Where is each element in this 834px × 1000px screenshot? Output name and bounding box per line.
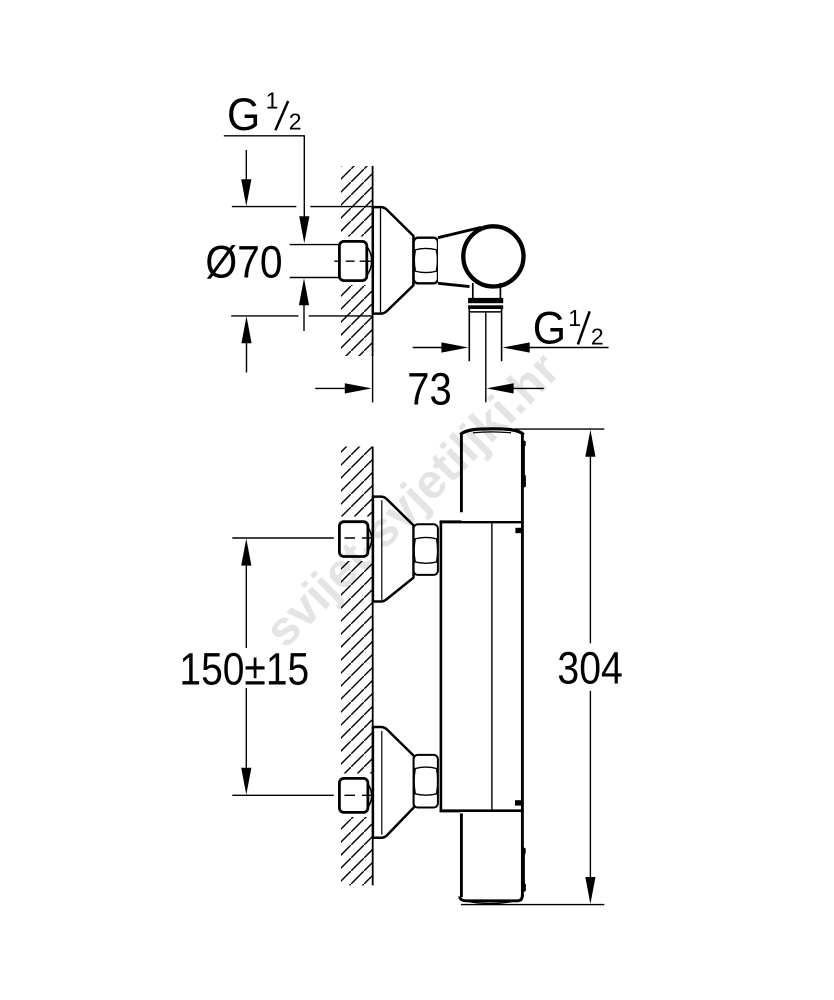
outlet pipe xyxy=(468,309,470,361)
150 dimension line with arrows xyxy=(241,539,251,566)
upper inlet nut centerline xyxy=(345,537,372,539)
svg-text:304: 304 xyxy=(557,642,622,693)
inlet nut centerline (top view) xyxy=(334,260,371,262)
lower inlet nut centerline xyxy=(345,794,372,796)
hatch clearance around inlet nut (top view) xyxy=(336,237,373,286)
inlet nut in wall (top view) xyxy=(367,246,372,276)
svg-text:2: 2 xyxy=(591,323,604,349)
G1/2 leader underline xyxy=(224,135,305,137)
hatch clearance lower inlet nut xyxy=(334,774,372,818)
right edge (knob and body) xyxy=(521,434,524,897)
extension line bottom of rosette (O70 lower) xyxy=(231,315,372,317)
outlet pipe centerline xyxy=(485,312,487,402)
knob lever (bottom knob) xyxy=(523,851,525,886)
set screw dot lower xyxy=(515,800,522,805)
extension line top of rosette (O70 upper) xyxy=(232,206,373,208)
lower escutcheon flange line xyxy=(381,731,383,835)
lower inlet extension line xyxy=(232,794,333,796)
upper escutcheon flange line xyxy=(381,500,383,600)
hatch clearance upper inlet nut xyxy=(334,517,372,562)
wall face line (top view) xyxy=(372,166,374,356)
svg-text:G: G xyxy=(227,89,260,140)
body left edge xyxy=(440,521,443,812)
thermostat knob (top) xyxy=(461,428,522,521)
shower outlet stub xyxy=(472,283,474,298)
flow knob (bottom) xyxy=(460,812,524,902)
set screw dot upper xyxy=(515,528,521,533)
body top edge xyxy=(440,520,524,523)
escutcheon flange inner line (top view) xyxy=(380,208,382,313)
body bottom edge xyxy=(440,809,524,812)
G1/2 outlet dimension arrows xyxy=(413,347,443,349)
G1/2 thread lower extension line xyxy=(290,277,340,279)
escutcheon rosette (top view) xyxy=(373,207,414,314)
svg-text:1: 1 xyxy=(266,88,279,114)
lower inlet nut in wall xyxy=(368,783,372,808)
upper union nut (front view) xyxy=(414,524,438,575)
wall hatch (front view) xyxy=(341,447,373,886)
73 dimension arrows xyxy=(315,387,346,389)
upper escutcheon rosette (front view) xyxy=(373,497,414,602)
O70 dimension arrow lower xyxy=(246,342,248,373)
outlet collar xyxy=(468,298,503,303)
svg-text:1: 1 xyxy=(568,305,581,331)
O70 dimension arrow upper xyxy=(245,150,247,182)
knob safety button (top knob) xyxy=(523,443,525,478)
G1/2 thread upper extension line xyxy=(290,244,340,246)
wall face extension line xyxy=(372,356,374,403)
upper inlet extension line xyxy=(232,537,333,539)
thermostat head circle (top view) xyxy=(463,226,523,286)
304 extension line top xyxy=(514,428,604,430)
svg-text:2: 2 xyxy=(289,109,302,135)
wall face line (front view) xyxy=(372,447,374,886)
G1/2 thread arrow up xyxy=(303,304,305,331)
svg-text:73: 73 xyxy=(407,364,452,415)
svg-text:Ø70: Ø70 xyxy=(205,237,282,288)
lower union nut (front view) xyxy=(414,755,438,808)
lower escutcheon rosette (front view) xyxy=(373,727,414,838)
wall hatch (top view) xyxy=(341,166,373,356)
svg-text:G: G xyxy=(533,302,566,353)
union nut (top view) xyxy=(414,238,438,284)
body inner line xyxy=(491,523,493,809)
304 dimension line with arrows xyxy=(585,430,595,457)
G1/2 leader vertical with arrow xyxy=(303,136,305,217)
mixer body (front view) xyxy=(440,520,524,812)
304 extension line bottom xyxy=(461,904,604,906)
upper inlet nut in wall xyxy=(368,527,372,552)
valve body (top view) xyxy=(438,226,505,287)
